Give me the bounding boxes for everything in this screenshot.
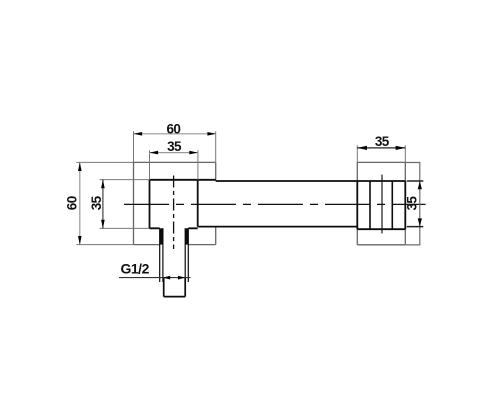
G1/2 arrows bbox=[163, 276, 170, 280]
boss square (35x35 front) bbox=[150, 180, 216, 229]
drop pipe wall fill through plate bbox=[160, 228, 163, 244]
dim left 35: dimension line bbox=[102, 180, 104, 229]
block inner rect + threads bbox=[357, 181, 405, 229]
block outer square (right 35 block) bbox=[357, 162, 405, 244]
dim right 35: frame line with corners bbox=[405, 163, 420, 245]
dim top 35 right block: extension lines bbox=[357, 145, 405, 162]
flange outer square (60x60 plate) bbox=[134, 162, 216, 244]
dim top 60: dimension line bbox=[134, 133, 217, 135]
vertical centerline bbox=[173, 176, 175, 250]
dim top 35 left: dimension line bbox=[150, 152, 198, 154]
svg-text:35: 35 bbox=[405, 196, 420, 211]
svg-text:60: 60 bbox=[166, 121, 180, 136]
dim left 60: dimension line bbox=[79, 162, 81, 244]
dim left 60: arrows bbox=[78, 162, 82, 171]
tube (horizontal arm) bbox=[198, 181, 406, 227]
dim left 35: extension lines bbox=[100, 180, 150, 229]
drop pipe thread walls bbox=[160, 228, 189, 282]
svg-text:60: 60 bbox=[64, 196, 79, 210]
svg-text:35: 35 bbox=[89, 195, 104, 210]
dim top 35 left: arrows bbox=[150, 151, 159, 155]
pipe stub (male thread end) bbox=[164, 278, 186, 297]
dim top 35 left: extension lines bbox=[150, 150, 198, 180]
G1/2 leader line bbox=[119, 277, 191, 279]
block center vertical mark bbox=[381, 175, 383, 234]
dim left 60: extension lines bbox=[76, 162, 133, 244]
dim top 35 right block: arrows bbox=[357, 146, 367, 150]
dim top 35 right block: dimension line bbox=[357, 147, 405, 149]
dim top 60: extension lines bbox=[134, 131, 216, 162]
svg-text:G1/2: G1/2 bbox=[121, 261, 150, 277]
dim top 60: arrows bbox=[134, 132, 143, 136]
horizontal centerline bbox=[124, 203, 426, 205]
dim left 35: arrows bbox=[101, 180, 105, 189]
svg-text:35: 35 bbox=[167, 139, 182, 154]
svg-text:35: 35 bbox=[375, 134, 390, 149]
dim right 35: arrows (outside, pointing inward) bbox=[418, 181, 422, 189]
dim right 35: extension lines bbox=[407, 181, 424, 227]
